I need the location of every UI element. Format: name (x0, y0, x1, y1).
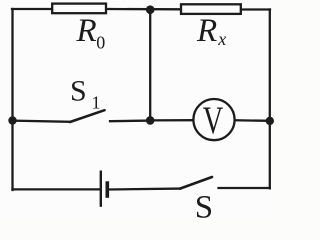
wire: middle rail from voltmeter to right rail (235, 119, 270, 122)
wire: bottom rail left segment to battery (13, 188, 101, 190)
svg-text:R: R (76, 13, 97, 49)
node A: top junction between R0 and Rx (146, 5, 155, 14)
svg-text:S: S (70, 75, 87, 108)
wire: left vertical rail (11, 9, 13, 190)
wire: middle rail from center node to voltmeter (150, 119, 193, 122)
wire: middle vertical branch (149, 10, 151, 120)
battery (cell): short negative plate (106, 181, 110, 198)
switch S1 (open blade) (70, 110, 105, 122)
svg-text:V: V (203, 99, 224, 142)
node B: left junction on middle rail (8, 116, 16, 124)
voltmeter V (193, 99, 234, 140)
svg-text:x: x (217, 29, 226, 49)
wire: top rail left segment (12, 8, 51, 10)
background paper (0, 0, 276, 220)
node C: center junction on middle rail (146, 116, 155, 125)
svg-text:1: 1 (92, 92, 101, 112)
wire: top rail right segment (242, 8, 270, 10)
battery (cell): long positive plate (100, 171, 102, 207)
label S1 (70, 75, 101, 113)
wire: middle rail left segment to switch S1 (13, 121, 71, 122)
wire: switch S contact to right rail (219, 187, 270, 189)
svg-text:0: 0 (96, 32, 105, 52)
label Rx (196, 13, 226, 49)
wire: battery to switch S (109, 187, 181, 190)
node D: right junction on middle rail (266, 117, 274, 125)
resistor Rx (181, 4, 241, 14)
wire: top rail middle segment (107, 8, 180, 11)
wire: middle rail from S1 contact to center node (110, 119, 150, 122)
switch S (open blade) (180, 177, 212, 189)
wire: right vertical rail (269, 10, 271, 189)
label R0 (76, 13, 106, 52)
resistor R0 (52, 4, 106, 14)
svg-text:S: S (195, 190, 213, 220)
svg-text:R: R (196, 13, 217, 49)
